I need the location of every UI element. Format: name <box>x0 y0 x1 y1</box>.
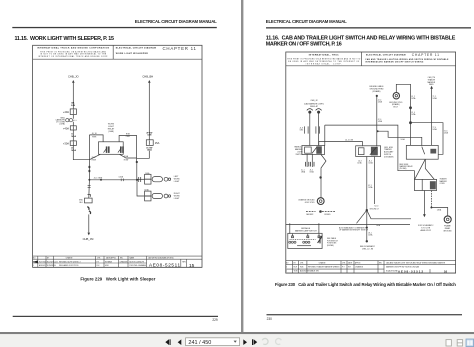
svg-text:AE08-52512: AE08-52512 <box>398 270 423 274</box>
svg-text:15: 15 <box>189 263 195 269</box>
svg-text:2: 2 <box>286 267 287 269</box>
ground stud (frame) <box>393 93 399 99</box>
engine cable ground label <box>370 85 385 93</box>
svg-text:16: 16 <box>444 270 448 274</box>
svg-text:LIGHT: LIGHT <box>174 181 180 183</box>
svg-text:J6_16: J6_16 <box>92 133 97 135</box>
svg-text:J3_4: J3_4 <box>411 112 415 114</box>
svg-text:AE08-52511: AE08-52511 <box>149 263 180 268</box>
svg-text:CHK: CHK <box>342 263 346 265</box>
alternates note <box>339 226 369 231</box>
svg-text:REL: REL <box>379 263 382 265</box>
wire trailer marker with up arrow <box>431 89 433 146</box>
switch A contact lever <box>312 147 317 153</box>
drawing title cell <box>365 53 449 63</box>
svg-text:(CHB): (CHB) <box>60 124 66 126</box>
tick label on leg <box>368 233 373 237</box>
svg-text:DATE APPVD: DATE APPVD <box>106 257 117 260</box>
svg-text:CAB AND TRAILER LIGHTING WIRIN: CAB AND TRAILER LIGHTING WIRING AND SWIT… <box>365 58 449 61</box>
page gap divider between left and right pages <box>241 0 243 332</box>
toolbar background <box>0 334 474 347</box>
trailer marker label <box>427 77 435 86</box>
footer rule <box>267 314 463 315</box>
svg-text:MARKER ON/OFF SW MOSTLY-W/CAB: MARKER ON/OFF SW MOSTLY-W/CAB <box>386 266 420 269</box>
wire arrowhead at CHB_BH <box>148 80 151 83</box>
title box header separator <box>286 52 456 66</box>
svg-text:INTERMEDIATE MARKER ON/OFF SWI: INTERMEDIATE MARKER ON/OFF SWITCH WIRING <box>365 61 424 64</box>
svg-text:11.15. WORK LIGHT WITH SLEEPE: 11.15. WORK LIGHT WITH SLEEPER, P. 15 <box>15 36 115 42</box>
connector C2 stack (right work light) <box>145 191 151 201</box>
junction node on engine ground wire <box>377 130 379 132</box>
marker lamp bus rail <box>286 224 410 226</box>
svg-text:BE USED IN ANY WAY DETRIMENTAL: BE USED IN ANY WAY DETRIMENTAL TO THE IN… <box>288 60 359 63</box>
work light relay label <box>108 124 115 133</box>
svg-text:WYMNE: WYMNE <box>105 261 113 263</box>
arrowhead trailer marker <box>430 86 433 89</box>
tiny gauge marks along wires <box>378 96 449 141</box>
trailer light switch B <box>356 146 381 157</box>
svg-text:1: 1 <box>286 270 287 272</box>
title block header texts <box>286 262 446 265</box>
wire switch B right leg <box>374 157 376 205</box>
single page view icon <box>446 340 451 346</box>
footer rule <box>13 316 218 317</box>
svg-text:CAB MKR: CAB MKR <box>306 213 314 216</box>
lamp L2 bulb <box>164 194 171 198</box>
svg-text:CAB AND TRAILER LIGHT SWITCH A: CAB AND TRAILER LIGHT SWITCH AND RELAY W… <box>386 262 446 265</box>
svg-text:BLK: BLK <box>79 202 83 204</box>
wire relay coil feed left jog <box>89 135 103 142</box>
relay C coil block <box>430 149 436 154</box>
junction node switch B leg <box>366 209 368 211</box>
svg-text:J8_1: J8_1 <box>368 233 372 235</box>
wire lamp riser to bus <box>136 162 138 180</box>
relay K1 contact and coil <box>104 146 110 153</box>
stub labels below switch A <box>301 170 315 174</box>
bistable marker switch S2 <box>288 233 322 248</box>
svg-text:BY: BY <box>294 263 297 265</box>
svg-text:ADDED BISTABLE SW: ADDED BISTABLE SW <box>300 269 319 272</box>
junction node J2 <box>88 179 90 181</box>
terminal dot right <box>317 111 320 114</box>
cab ground label <box>298 198 315 203</box>
svg-text:SWITCH: SWITCH <box>296 154 304 156</box>
svg-text:CHAPTER 11: CHAPTER 11 <box>163 46 197 51</box>
scrolling view icon <box>457 340 462 346</box>
svg-text:INTERNATIONAL, TRUC: INTERNATIONAL, TRUC <box>309 54 339 57</box>
ground branch tick upper <box>88 195 91 197</box>
svg-text:T2_6: T2_6 <box>444 131 448 133</box>
svg-text:CHAPTER 11: CHAPTER 11 <box>412 53 439 57</box>
fuse F2 <box>70 141 76 146</box>
running header rule <box>266 27 471 28</box>
svg-text:FEED: FEED <box>429 84 434 86</box>
twisted lead symbol <box>87 207 90 214</box>
svg-text:J2_4: J2_4 <box>378 100 382 102</box>
wire branch to relay right side <box>411 123 444 155</box>
title box header separator <box>33 45 202 59</box>
svg-text:CAB WIRING (DIAGRAM) (FUSED): CAB WIRING (DIAGRAM) (FUSED) <box>148 257 174 260</box>
wire relay output right diagonal <box>120 154 137 158</box>
svg-text:(DETAIL): (DETAIL) <box>327 244 334 247</box>
svg-text:RGW: RGW <box>92 160 97 162</box>
cab ground stud <box>317 198 324 205</box>
relay output label RGC RGW <box>92 157 97 162</box>
end terminal label <box>360 245 376 251</box>
wire rail corner into switch A <box>324 125 326 146</box>
wire CHB_JO vertical feed <box>72 83 74 109</box>
wire cab marker right drop <box>318 113 320 145</box>
wire module D to schematic arrow <box>423 191 425 215</box>
svg-text:MOSTLY-W/SLPR: MOSTLY-W/SLPR <box>130 261 145 263</box>
lamp L1 label <box>174 176 181 183</box>
labels below switch B <box>357 161 378 208</box>
svg-text:4/98: 4/98 <box>105 265 109 267</box>
module D coil block <box>430 181 436 189</box>
junction node lower <box>366 227 368 229</box>
junction node M2 <box>409 121 412 124</box>
svg-text:GJM: GJM <box>147 135 152 137</box>
svg-text:J5_1: J5_1 <box>301 170 305 172</box>
svg-text:(ON DASH): (ON DASH) <box>384 155 394 158</box>
bistable switch contacts right group <box>303 241 310 243</box>
relay feed riser <box>88 135 90 180</box>
svg-text:GROUND: GROUND <box>443 230 452 232</box>
svg-text:J8 FEED: J8 FEED <box>324 214 331 216</box>
svg-text:AE08-52512: AE08-52512 <box>420 229 431 232</box>
wire gauge label left drop <box>300 128 304 132</box>
ground connector block G1 <box>85 198 93 203</box>
svg-text:REVISED TRAILER MARKER WIRING: REVISED TRAILER MARKER WIRING <box>308 266 340 269</box>
svg-text:J4_5 BRN: J4_5 BRN <box>94 177 103 179</box>
svg-text:INTERNATIONAL TRUCK AND ENGINE: INTERNATIONAL TRUCK AND ENGINE CORPORATI… <box>37 46 109 49</box>
svg-text:CHANGE: CHANGE <box>319 262 326 265</box>
svg-text:INTEREST OF INTERNATIONAL TRUC: INTEREST OF INTERNATIONAL TRUCK AND ENGI… <box>38 55 109 58</box>
svg-text:TDW: TDW <box>294 270 298 272</box>
junction node lamp riser <box>136 161 138 163</box>
title block content texts <box>33 260 187 267</box>
svg-text:+30A: +30A <box>63 141 69 145</box>
svg-text:(IN CAB): (IN CAB) <box>400 167 407 170</box>
toolbar top separator line <box>0 332 474 334</box>
svg-text:P6051WL-GRAHAM: P6051WL-GRAHAM <box>130 264 147 267</box>
splice marks on riser <box>89 166 91 168</box>
next-page button <box>243 339 247 345</box>
svg-text:229: 229 <box>212 318 218 322</box>
wire drop to right work light <box>137 180 144 196</box>
bistable switch side note <box>327 237 338 247</box>
svg-text:14GA: 14GA <box>119 176 124 179</box>
diagram border frame <box>33 45 202 267</box>
svg-text:RLH: RLH <box>294 267 298 269</box>
stub terminal below switch A <box>307 154 312 167</box>
svg-text:1: 1 <box>33 265 34 267</box>
svg-text:APPVD: APPVD <box>355 262 361 265</box>
page number field <box>186 338 240 346</box>
relay output label RGA RGW <box>124 155 129 161</box>
terminal dot left <box>308 111 311 114</box>
relay C label below <box>400 164 414 170</box>
switch B labels <box>384 147 394 159</box>
corporation name cell <box>37 46 109 58</box>
connector C1 stack (left work light) <box>145 174 151 184</box>
svg-text:RGC: RGC <box>92 157 97 159</box>
svg-text:J6_3: J6_3 <box>358 161 362 163</box>
junction node ground leg <box>430 207 432 209</box>
connector callout label <box>55 117 65 125</box>
svg-text:GJM: GJM <box>300 130 304 132</box>
svg-text:230: 230 <box>267 317 273 321</box>
wire branch to trailer feed <box>367 210 411 219</box>
svg-text:REV: REV <box>182 261 186 263</box>
diagram border frame <box>286 52 456 273</box>
terminal dot end <box>366 240 368 242</box>
title block content texts <box>286 266 420 273</box>
bistable switch actuator arrow <box>318 236 323 244</box>
title block revision arrow <box>33 261 38 264</box>
frame ground stud (rear) <box>444 216 451 223</box>
title block grid <box>286 261 456 274</box>
switch A labels <box>294 146 303 156</box>
svg-text:T1_2: T1_2 <box>433 96 437 98</box>
svg-text:K2_1: K2_1 <box>368 185 372 187</box>
svg-text:ELECTRICAL CIRCUIT DIAGRAM: ELECTRICAL CIRCUIT DIAGRAM <box>116 46 156 49</box>
ground branch splice ticks <box>88 185 91 187</box>
fuse F1 <box>70 109 76 115</box>
svg-text:J2_6: J2_6 <box>378 119 382 121</box>
svg-text:14GA: 14GA <box>437 209 442 212</box>
svg-text:CHK: CHK <box>300 263 304 265</box>
svg-text:J6_5: J6_5 <box>369 161 373 163</box>
junction node M1 <box>409 106 412 109</box>
circuit breaker CB1 <box>70 126 76 130</box>
wire gauge label above fuse F1 <box>71 102 76 107</box>
svg-text:14GA: 14GA <box>401 138 406 141</box>
marker light switch A <box>302 146 325 155</box>
running header rule <box>12 27 217 28</box>
last-page button <box>252 339 257 345</box>
svg-text:DATE: DATE <box>348 262 352 265</box>
svg-text:+40A: +40A <box>63 126 69 130</box>
relay K1/K2 outer case <box>99 142 124 155</box>
connector pair (inline connector) <box>66 119 77 122</box>
switch A armature block <box>316 146 322 154</box>
svg-text:OF MARKER INTERRUPT SWITCH: OF MARKER INTERRUPT SWITCH <box>339 229 369 232</box>
marker relay C <box>406 145 438 159</box>
note above marker bus <box>306 210 336 216</box>
fuse F3 <box>146 140 153 146</box>
first-page button <box>165 339 170 345</box>
svg-text:CHANGE: CHANGE <box>66 257 73 260</box>
switch circuit label <box>146 132 152 136</box>
svg-text:REVISED SLPR WORK LT: REVISED SLPR WORK LT <box>59 261 82 263</box>
svg-text:PWR: PWR <box>126 136 131 138</box>
next-view button (disabled) <box>276 338 282 344</box>
svg-text:T2_4: T2_4 <box>433 127 437 129</box>
wire stair to marker relay <box>378 131 422 146</box>
node CHB label cab marker feed <box>304 100 324 108</box>
bistable switch contacts left group <box>289 241 296 243</box>
svg-text:RGW: RGW <box>124 159 129 161</box>
breaker CB1 circuit label <box>71 134 76 138</box>
svg-text:J3_2: J3_2 <box>411 96 415 98</box>
switch B contact lever <box>370 147 377 155</box>
svg-text:RELEASED FOR PROD: RELEASED FOR PROD <box>59 264 79 267</box>
arrowhead module D reference <box>423 214 426 217</box>
wire fuse to connector <box>72 115 74 119</box>
svg-text:P.T: P.T <box>342 267 345 269</box>
bistable switch label <box>295 227 317 232</box>
svg-text:THIS PRINT IS PROVIDED ON A RE: THIS PRINT IS PROVIDED ON A RESTRICTED B… <box>287 57 361 60</box>
svg-text:J2_8: J2_8 <box>300 128 304 130</box>
wire cab marker left drop <box>309 113 311 145</box>
svg-text:GJM: GJM <box>71 105 76 107</box>
corporation name cell <box>287 54 361 66</box>
wire fuse F2 elbow to relay feed bus <box>73 145 89 159</box>
relay pin label RGB PWR <box>126 133 131 138</box>
svg-text:WY: WY <box>348 267 352 269</box>
svg-text:CHASSIS: CHASSIS <box>355 266 364 269</box>
module D reference label <box>418 224 434 232</box>
fuse F2 circuit label <box>71 148 76 152</box>
svg-text:W.B: W.B <box>300 267 304 269</box>
wire relay C to module D diagonals <box>415 159 435 179</box>
svg-text:PWR: PWR <box>92 136 97 138</box>
wire ground leg to stud <box>431 208 447 216</box>
svg-text:CHB_JM: CHB_JM <box>83 237 95 241</box>
svg-text:NO: NO <box>286 263 289 265</box>
title block header row texts <box>33 257 174 260</box>
svg-text:NAME: NAME <box>130 257 135 260</box>
svg-text:14GA: 14GA <box>71 149 76 152</box>
wire switch A to cab ground <box>321 154 326 197</box>
wire bus to connector C1 <box>137 178 145 180</box>
svg-text:ADDED TW WIRING: ADDED TW WIRING <box>39 264 56 267</box>
wire engine ground drop <box>376 96 378 146</box>
lamp socket capsule left work light <box>152 177 162 182</box>
rear ground stud label <box>443 225 452 233</box>
fuse F3 circuit label <box>146 147 152 151</box>
module D label <box>440 178 448 185</box>
svg-text:J5_2: J5_2 <box>310 170 314 172</box>
connector ring terminal hoods <box>307 109 322 111</box>
previous-view button (disabled) <box>262 338 268 344</box>
trailer relay module D <box>414 179 436 190</box>
svg-text:REL: REL <box>120 258 123 260</box>
svg-text:ELECTRICAL CIRCUIT DIAGRAM MAN: ELECTRICAL CIRCUIT DIAGRAM MANUAL <box>266 19 347 24</box>
svg-text:14GA: 14GA <box>71 135 76 138</box>
switch B armature block <box>371 147 378 156</box>
svg-text:Figure 230 Cab and Trailer L: Figure 230 Cab and Trailer Light Switch … <box>275 282 456 287</box>
wire breaker to fuse F2 <box>72 130 74 141</box>
wire to node CHB_JM <box>88 214 90 232</box>
wire relay output left diagonal <box>89 154 100 159</box>
relay pin label J6_16 PWR <box>92 133 97 138</box>
lead-in ticks left work light <box>139 177 141 182</box>
wire relay coil feed right jog <box>119 136 137 163</box>
svg-text:LIGHT: LIGHT <box>174 198 180 200</box>
svg-text:CHASSIS: CHASSIS <box>120 260 129 263</box>
svg-text:CHB_JL / JM: CHB_JL / JM <box>362 248 374 250</box>
svg-text:ELECTRICAL CIRCUIT DIAGRAM MAN: ELECTRICAL CIRCUIT DIAGRAM MANUAL <box>135 19 217 24</box>
svg-text:CHB_JO: CHB_JO <box>68 75 79 79</box>
svg-text:MARKER ON / OFF SWITCH, P. 16: MARKER ON / OFF SWITCH, P. 16 <box>266 41 342 47</box>
drawing title cell <box>116 46 156 55</box>
lamp L1 bulb <box>164 177 171 181</box>
svg-text:+40A: +40A <box>63 110 69 114</box>
svg-text:ELECTRICAL CIRCUIT DIAGRAM: ELECTRICAL CIRCUIT DIAGRAM <box>366 54 406 57</box>
svg-text:FEED AT: FEED AT <box>310 105 319 108</box>
svg-text:CONN: CONN <box>440 183 446 185</box>
svg-text:SCALE NONE: SCALE NONE <box>386 269 398 272</box>
relay K2 contact and coil <box>118 146 124 153</box>
lamp L2 label <box>174 193 181 200</box>
wire diagonal to marker bus <box>357 210 367 223</box>
stub rail to bistable switch <box>290 223 319 233</box>
svg-text:(FRAME): (FRAME) <box>373 90 381 93</box>
field dropdown arrow <box>234 341 237 343</box>
svg-text:CHB_JK: CHB_JK <box>310 100 318 102</box>
facing pages view icon (selected) <box>466 339 474 347</box>
ground block label <box>79 199 84 203</box>
bus splice ticks <box>121 179 123 182</box>
svg-text:G101 STUD: G101 STUD <box>305 202 315 204</box>
ground branch wire <box>88 180 91 198</box>
svg-text:RLH W.B IN J/W BLDG: RLH W.B IN J/W BLDG <box>39 261 58 263</box>
wire arrowhead at CHB_JM <box>88 233 91 236</box>
wire CHB_BH vertical feed <box>148 83 150 140</box>
svg-text:CHB_BH: CHB_BH <box>142 75 153 79</box>
svg-text:(CAB): (CAB) <box>108 130 114 133</box>
lamp feed bus <box>89 179 137 181</box>
svg-text:K2_3: K2_3 <box>375 206 379 208</box>
svg-text:2: 2 <box>33 261 34 263</box>
svg-text:15A: 15A <box>155 141 160 145</box>
svg-text:BOLT: BOLT <box>393 106 398 108</box>
svg-text:GROUND J7: GROUND J7 <box>370 209 379 211</box>
junction node J3 <box>100 179 102 181</box>
svg-text:J4_2 LGN: J4_2 LGN <box>345 140 354 142</box>
wire connector to breaker <box>72 122 74 126</box>
wire arrowhead at CHB_JO <box>72 80 75 83</box>
title block grid <box>33 256 202 267</box>
svg-text:241 / 450: 241 / 450 <box>188 340 211 346</box>
engine ground wire start dot <box>376 95 378 97</box>
junction node J4 <box>136 179 138 181</box>
wire fuse F3 elbow to lamp riser <box>137 151 149 159</box>
svg-text:WORK LIGHT W/SLEEPER: WORK LIGHT W/SLEEPER <box>116 53 148 55</box>
connector pin sleeves <box>305 126 320 133</box>
wire switch B left leg <box>366 157 368 242</box>
wire module D to frame ground <box>430 191 432 208</box>
svg-text:Figure 229 Work Light with S: Figure 229 Work Light with Sleeper <box>80 277 155 282</box>
wire J4 jumper <box>319 142 363 147</box>
ground stud label <box>389 102 403 109</box>
svg-text:MARKER LAMP SWITCH: MARKER LAMP SWITCH <box>295 230 317 233</box>
svg-text:INTERNATIONAL CORP.: INTERNATIONAL CORP. <box>306 63 343 66</box>
cab marker rail to relay feed <box>325 125 415 179</box>
previous-page button <box>178 339 182 345</box>
svg-text:RGB: RGB <box>126 133 131 135</box>
wire ground stud to marker feed <box>396 84 410 145</box>
lamp socket capsule right work light <box>152 193 162 198</box>
